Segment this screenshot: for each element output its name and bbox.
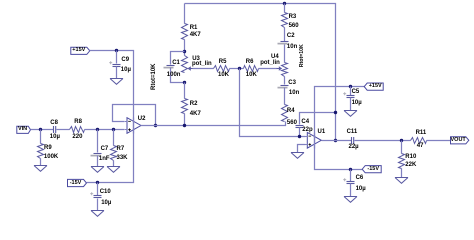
node U3 bottom junction <box>183 81 186 84</box>
wire C7 to ground <box>97 156 99 167</box>
resistor R3 <box>282 13 288 28</box>
wire R9 to ground <box>40 159 42 166</box>
wire U3 wiper to R5 <box>193 68 214 70</box>
wire C3 to R4 <box>284 88 286 105</box>
wire top rail <box>185 4 336 141</box>
wire R11 to VOUT <box>427 140 451 142</box>
label U3 Rtot label <box>151 63 157 90</box>
wire +15V rail <box>90 51 134 134</box>
ground under C6 <box>344 197 357 203</box>
wire R9 lead <box>40 130 42 144</box>
flag VOUT label <box>449 138 468 144</box>
wire R6 to U4 wiper <box>259 68 278 70</box>
resistor R8 <box>70 127 85 133</box>
wire C10 to ground <box>97 199 99 211</box>
flag VOUT <box>451 137 469 144</box>
wire R3 top lead <box>284 4 286 13</box>
wire C11 to R11 <box>355 140 411 142</box>
label U4 Rtot label <box>300 44 305 67</box>
wire C5 lead <box>350 87 352 96</box>
capacitor C6 <box>347 181 355 183</box>
resistor R7 label <box>117 146 125 152</box>
ground under R9 <box>34 166 47 172</box>
wire U1 plus to ground <box>298 145 306 153</box>
wire R10 to ground <box>401 169 403 178</box>
node U1 output rail junction <box>334 139 337 142</box>
flag -15V right label <box>363 167 383 173</box>
capacitor C8 label <box>50 120 58 126</box>
op-amp U2 label <box>138 116 146 122</box>
ground under C9 <box>110 79 123 85</box>
capacitor C1 <box>167 65 175 67</box>
op-amp U2 <box>127 118 141 134</box>
wire C8 to R8 <box>57 129 70 131</box>
op-amp U1 <box>307 133 321 149</box>
wire U4 to C3 <box>284 77 286 85</box>
capacitor C4 label <box>301 119 309 125</box>
wire U1 Vplus <box>315 87 365 149</box>
wire C1 top connector <box>171 52 185 65</box>
flag -15V right <box>362 166 381 173</box>
potentiometer U3 <box>182 56 188 73</box>
node R10 junction <box>400 139 403 142</box>
resistor R6 <box>244 66 259 72</box>
resistor R5 <box>214 66 230 72</box>
resistor R2 <box>182 99 188 114</box>
resistor R2 label <box>190 101 198 107</box>
ground under C7 <box>91 167 104 173</box>
capacitor C1 label <box>172 60 180 66</box>
node U2 output junction <box>154 124 157 127</box>
flag +15V left label <box>69 48 89 54</box>
wire U2 output <box>141 122 286 126</box>
resistor R11 label <box>416 130 427 136</box>
wire R7 lead <box>113 130 115 146</box>
wire tap to U1 minus <box>240 69 306 137</box>
resistor R6 label <box>246 59 254 65</box>
capacitor C10 label <box>100 189 111 195</box>
wire C1 bottom connector <box>171 68 185 83</box>
resistor R1 <box>182 24 188 40</box>
wire C2 to U4 <box>284 45 286 63</box>
ground under C10 <box>91 211 104 217</box>
potentiometer U3 label <box>192 56 200 62</box>
capacitor C2 label <box>287 33 295 39</box>
capacitor C8 <box>53 126 55 133</box>
wire R5 to R6 <box>230 68 244 70</box>
wire VIN to C8 <box>31 129 54 131</box>
node rail R3 junction <box>283 2 286 5</box>
resistor R4 <box>282 105 288 122</box>
capacitor C9 label <box>121 57 129 63</box>
wire U1 Vminus <box>315 133 363 170</box>
wire R10 lead <box>401 141 403 154</box>
flag VIN <box>17 126 31 133</box>
wire -15V rail <box>87 118 134 183</box>
wire C6 lead <box>350 170 352 182</box>
wire R3 to C2 <box>284 28 286 42</box>
flag +15V right <box>364 83 383 90</box>
capacitor C9 <box>113 64 121 66</box>
flag -15V left label <box>66 181 86 187</box>
wire R8 to U2 plus <box>85 129 125 131</box>
capacitor C6 label <box>356 175 364 181</box>
resistor R10 <box>399 154 405 169</box>
resistor R7 <box>111 146 117 161</box>
wire U1 output <box>322 140 352 142</box>
ground under U1 plus <box>291 153 304 159</box>
op-amp U1 label <box>318 129 326 135</box>
ground under C5 <box>344 111 357 117</box>
capacitor C5 <box>347 95 355 97</box>
resistor R4 label <box>287 108 295 114</box>
flag -15V left <box>68 179 87 186</box>
node tap junction <box>238 67 241 70</box>
flag +15V right label <box>365 84 385 90</box>
resistor R9 <box>38 144 44 159</box>
node C4 minus junction <box>298 135 301 138</box>
wire R2 bottom lead <box>184 114 186 126</box>
ground under R10 <box>395 178 408 184</box>
capacitor C3 <box>281 85 289 87</box>
resistor R11 <box>411 138 427 144</box>
resistor R10 label <box>405 154 416 160</box>
wire R1 to U3 top <box>184 40 186 56</box>
capacitor C7 <box>94 153 102 155</box>
wire C4 riser <box>300 113 336 125</box>
wire C9 to ground <box>116 67 118 79</box>
potentiometer U4 label <box>271 54 279 60</box>
resistor R8 label <box>74 119 82 125</box>
capacitor C11 label <box>347 129 358 135</box>
node U3 top junction <box>183 50 186 53</box>
wire U2 feedback <box>113 105 156 126</box>
capacitor C2 <box>281 41 289 43</box>
wire R7 to ground <box>113 161 115 167</box>
node C6 junction <box>349 168 352 171</box>
capacitor C4 <box>296 125 304 127</box>
resistor R9 label <box>44 145 52 151</box>
potentiometer U4 <box>282 63 288 77</box>
capacitor C5 label <box>352 89 360 95</box>
wire C7 lead <box>97 130 99 153</box>
resistor R1 label <box>190 25 198 31</box>
node C10 junction <box>96 181 99 184</box>
ground under R7 <box>107 167 120 173</box>
capacitor C11 <box>351 137 353 144</box>
node C4 riser junction <box>334 111 337 114</box>
resistor R3 label <box>289 14 297 20</box>
node C5 junction <box>349 85 352 88</box>
node C9 junction <box>115 49 118 52</box>
wire C5 to ground <box>350 98 352 111</box>
wire C6 to ground <box>350 184 352 197</box>
capacitor C3 label <box>288 80 296 86</box>
wire C4 bottom lead <box>299 128 301 137</box>
flag VIN label <box>15 127 31 133</box>
node C7 junction <box>96 128 99 131</box>
node R7 junction <box>112 128 115 131</box>
wire R1 top lead <box>184 4 186 24</box>
wire C9 lead <box>116 51 118 64</box>
flag +15V left <box>71 47 90 54</box>
node VIN junction <box>39 128 42 131</box>
node R2 output junction <box>183 124 186 127</box>
capacitor C7 label <box>101 146 109 152</box>
resistor R5 label <box>219 59 227 65</box>
wire C10 lead <box>97 183 99 196</box>
capacitor C10 <box>94 195 102 197</box>
wire R2 top lead <box>184 83 186 99</box>
